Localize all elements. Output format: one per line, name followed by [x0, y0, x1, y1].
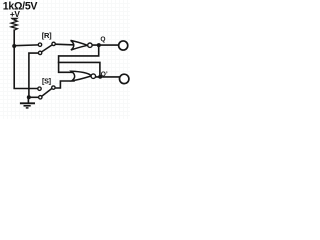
svg-text:[S]: [S] — [42, 76, 51, 85]
svg-text:1kΩ/5V: 1kΩ/5V — [3, 1, 38, 13]
svg-text:[R]: [R] — [42, 31, 52, 40]
svg-text:Q’: Q’ — [101, 71, 108, 78]
svg-text:+V: +V — [10, 9, 20, 19]
svg-text:Q: Q — [100, 36, 105, 43]
